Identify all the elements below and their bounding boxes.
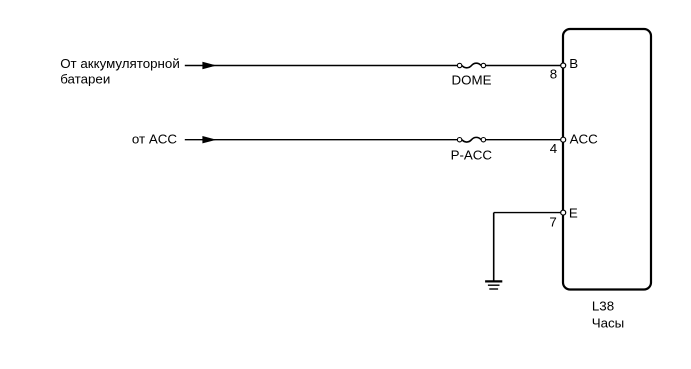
svg-text:Часы: Часы <box>592 315 625 330</box>
svg-text:От аккумуляторной: От аккумуляторной <box>60 56 180 71</box>
svg-text:8: 8 <box>550 66 557 81</box>
fuse P-ACC <box>457 137 485 142</box>
fuse DOME <box>457 63 485 68</box>
svg-text:7: 7 <box>549 214 556 229</box>
wire W3 (ground wire to pin 7) <box>494 212 561 214</box>
wire W3 vertical drop to ground <box>493 213 495 281</box>
pin 7 terminal circle <box>561 210 566 215</box>
svg-text:L38: L38 <box>592 299 614 314</box>
label "От аккумуляторной батареи" <box>60 56 180 86</box>
arrow on wire W2 <box>202 136 216 143</box>
wire W1 (battery feed, left segment) <box>185 65 458 67</box>
connector box U1 (L38 clock) <box>563 29 651 290</box>
svg-text:E: E <box>569 206 578 221</box>
svg-text:от ACC: от ACC <box>132 132 177 147</box>
ground symbol <box>485 281 502 289</box>
svg-text:батареи: батареи <box>60 71 110 86</box>
svg-text:P-ACC: P-ACC <box>451 148 493 163</box>
svg-text:B: B <box>569 56 578 71</box>
wire W2 (ACC feed, right segment to pin 4) <box>486 139 561 141</box>
wire W2 (ACC feed, left segment) <box>185 139 458 141</box>
svg-text:ACC: ACC <box>570 132 599 147</box>
pin 8 terminal circle <box>561 63 566 68</box>
svg-text:4: 4 <box>550 141 558 156</box>
wire W1 (battery feed, right segment to pin 8) <box>486 65 561 67</box>
svg-text:DOME: DOME <box>452 72 492 87</box>
arrow on wire W1 <box>202 62 216 69</box>
pin 4 terminal circle <box>561 137 566 142</box>
